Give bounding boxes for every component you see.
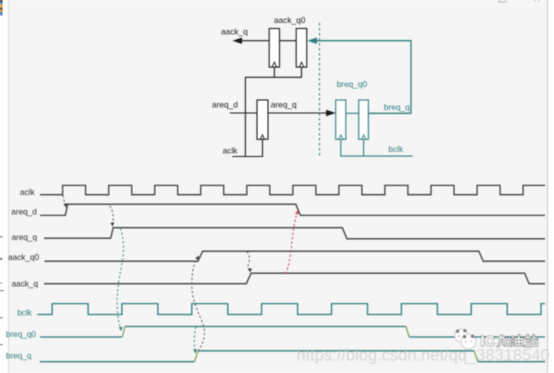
waveform bclk xyxy=(37,304,545,315)
clock triangle U4 xyxy=(339,135,344,140)
wire U5 output breq_q xyxy=(368,112,411,114)
svg-text:breq_q: breq_q xyxy=(384,102,410,112)
arrow aack_q->areq_d fall (red) xyxy=(286,212,298,273)
clock-domain divider (teal dashed) xyxy=(319,23,321,158)
svg-text:aack_q0: aack_q0 xyxy=(274,15,306,25)
waveform areq_d xyxy=(40,204,545,215)
wire aclk net xyxy=(232,67,301,156)
flip-flop U4 (breq sync FF1, teal) xyxy=(336,100,346,139)
svg-text:aack_q0: aack_q0 xyxy=(8,253,39,262)
watermark glyph 站 xyxy=(525,335,537,346)
svg-text:aclk: aclk xyxy=(20,188,35,197)
clock triangle U2 xyxy=(299,62,304,67)
svg-text:bclk: bclk xyxy=(388,144,404,154)
ruler tick y344.7 xyxy=(0,344,3,346)
arrow areq_d->areq_q xyxy=(110,206,114,224)
watermark logo panda xyxy=(455,329,476,349)
svg-text:breq_q0: breq_q0 xyxy=(6,330,36,339)
waveform aack_q0 xyxy=(45,251,546,261)
clock triangle U1 xyxy=(272,62,277,67)
wire aack_q output with arrow xyxy=(241,40,269,42)
wire areq_d input xyxy=(230,112,257,114)
wire areq_q to B domain with arrow xyxy=(268,112,327,114)
arrow areq_q->breq_q0 (teal) xyxy=(117,228,123,328)
arrow breq_q0->breq_q (teal) xyxy=(194,327,196,351)
svg-text:breq_q: breq_q xyxy=(6,352,32,361)
svg-text:https://blog.csdn.net/qq_38318: https://blog.csdn.net/qq_38318540 xyxy=(296,347,549,365)
waveform breq_q xyxy=(40,361,195,363)
toolbar icon 1 (cut) xyxy=(499,0,506,2)
ruler tick y258.9 xyxy=(0,258,2,260)
watermark glyph 加 xyxy=(498,336,510,347)
arrow breq_q->aack_q0 (gray) xyxy=(192,258,205,351)
svg-text:areq_q: areq_q xyxy=(271,100,297,110)
arrow aclk->areq_d xyxy=(63,195,66,205)
arrow aack_q0->aack_q (gray) xyxy=(247,252,250,271)
ruler tick y290.6 xyxy=(0,290,4,292)
waveform aack_q xyxy=(44,273,545,284)
svg-text:areq_d: areq_d xyxy=(212,100,238,110)
wire bclk net xyxy=(341,140,413,156)
wire U4-U5 xyxy=(346,112,359,114)
svg-text:IC: IC xyxy=(481,334,496,350)
svg-text:aack_q: aack_q xyxy=(12,279,39,288)
clock triangle U5 xyxy=(361,135,366,140)
flip-flop U1 (aack sync FF1) xyxy=(269,29,279,68)
svg-text:bclk: bclk xyxy=(17,308,32,317)
wire U1-U2 xyxy=(280,40,297,42)
svg-text:aack_q: aack_q xyxy=(221,26,248,36)
clock triangle U3 xyxy=(260,135,265,140)
flip-flop U3 (areq_q) xyxy=(257,100,268,139)
waveform areq_q xyxy=(44,228,545,239)
toolbar icon 2 (cut) xyxy=(534,0,541,1)
waveform breq_q0 xyxy=(40,336,122,338)
flip-flop U5 (breq sync FF2, teal) xyxy=(359,100,369,139)
ruler tick y236.7 xyxy=(0,236,3,238)
svg-text:aclk: aclk xyxy=(223,145,239,155)
ruler tick y283.2 xyxy=(0,282,2,284)
wire breq_q feedback (teal) into U2 xyxy=(316,41,411,114)
ruler tick y317.8 xyxy=(0,317,3,319)
watermark glyph 油 xyxy=(512,335,523,346)
svg-text:areq_q: areq_q xyxy=(12,233,38,242)
svg-text:breq_q0: breq_q0 xyxy=(337,79,368,89)
svg-text:areq_d: areq_d xyxy=(11,208,37,217)
waveform aclk xyxy=(40,185,545,194)
favicon sliver top-left xyxy=(0,0,3,16)
flip-flop U2 (aack sync FF2) xyxy=(296,29,307,68)
